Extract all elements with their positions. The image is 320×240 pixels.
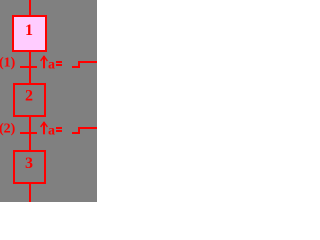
- svg-text:2: 2: [25, 88, 33, 105]
- svg-text:(2): (2): [0, 122, 16, 137]
- svg-text:a: a: [48, 123, 55, 138]
- svg-text:a: a: [48, 57, 55, 72]
- svg-text:3: 3: [25, 155, 33, 172]
- svg-text:1: 1: [25, 22, 33, 39]
- svg-text:(1): (1): [0, 56, 16, 71]
